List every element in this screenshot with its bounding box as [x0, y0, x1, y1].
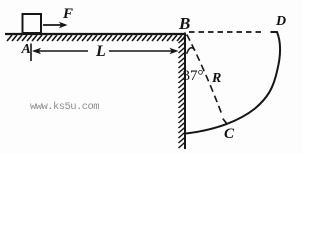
tick at C on arc [223, 119, 228, 125]
tick at A [30, 44, 32, 62]
table surface line A to B [5, 33, 186, 35]
label L [96, 43, 106, 61]
watermark [30, 101, 99, 113]
label 37 degrees [183, 68, 204, 85]
block on table [23, 14, 42, 33]
dashed radius line B to C [187, 35, 223, 117]
label C [224, 126, 234, 143]
force F arrow [43, 22, 68, 28]
label B [179, 14, 190, 34]
label D [276, 14, 286, 30]
vertical wall line below B [184, 33, 186, 150]
angle arc at B [187, 48, 195, 54]
label F [63, 6, 73, 23]
dimension line L left segment with left arrowhead [32, 48, 88, 54]
arc D to C (quarter ellipse) [186, 32, 280, 134]
wall hatching [179, 37, 186, 148]
table surface hatching [7, 35, 186, 41]
dimension line L right segment with right arrowhead [109, 48, 179, 54]
label A [22, 42, 31, 58]
label R [212, 71, 221, 87]
dashed line B to D [189, 31, 265, 33]
